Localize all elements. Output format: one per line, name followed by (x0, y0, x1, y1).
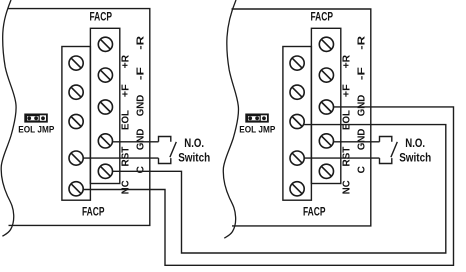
svg-text:EOL JMP: EOL JMP (239, 125, 276, 136)
svg-text:FACP: FACP (89, 12, 112, 24)
svg-text:-F: -F (136, 67, 147, 80)
svg-text:RST: RST (342, 147, 353, 167)
svg-text:GND: GND (357, 95, 368, 117)
svg-text:FACP: FACP (82, 206, 105, 218)
svg-text:+F: +F (342, 84, 353, 97)
svg-text:RST: RST (121, 147, 132, 167)
svg-text:C: C (136, 166, 147, 173)
svg-text:EOL: EOL (121, 110, 132, 130)
svg-text:C: C (357, 166, 368, 173)
svg-text:NC: NC (342, 180, 353, 194)
svg-text:N.O.: N.O. (184, 138, 204, 150)
svg-text:N.O.: N.O. (405, 138, 425, 150)
svg-text:EOL: EOL (342, 110, 353, 130)
svg-text:GND: GND (136, 129, 147, 151)
svg-text:-R: -R (357, 35, 368, 50)
svg-text:GND: GND (136, 95, 147, 117)
svg-text:Switch: Switch (178, 150, 210, 164)
svg-text:FACP: FACP (303, 206, 326, 218)
svg-text:GND: GND (357, 129, 368, 151)
svg-text:+R: +R (121, 54, 132, 68)
svg-text:-F: -F (357, 67, 368, 80)
svg-text:+R: +R (342, 54, 353, 68)
svg-text:-R: -R (136, 35, 147, 50)
svg-text:FACP: FACP (310, 12, 333, 24)
svg-text:+F: +F (121, 84, 132, 97)
svg-text:NC: NC (121, 180, 132, 194)
svg-text:EOL JMP: EOL JMP (18, 125, 55, 136)
svg-text:Switch: Switch (399, 150, 431, 164)
